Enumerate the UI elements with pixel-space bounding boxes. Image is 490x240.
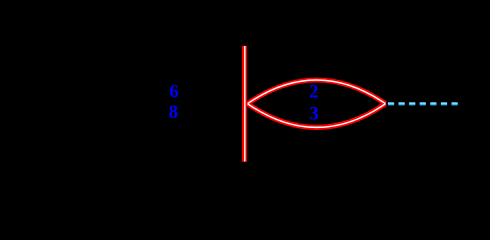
- svg-text:6: 6: [169, 82, 178, 103]
- svg-text:2: 2: [309, 82, 318, 103]
- svg-text:8: 8: [169, 102, 178, 123]
- svg-text:3: 3: [309, 104, 318, 125]
